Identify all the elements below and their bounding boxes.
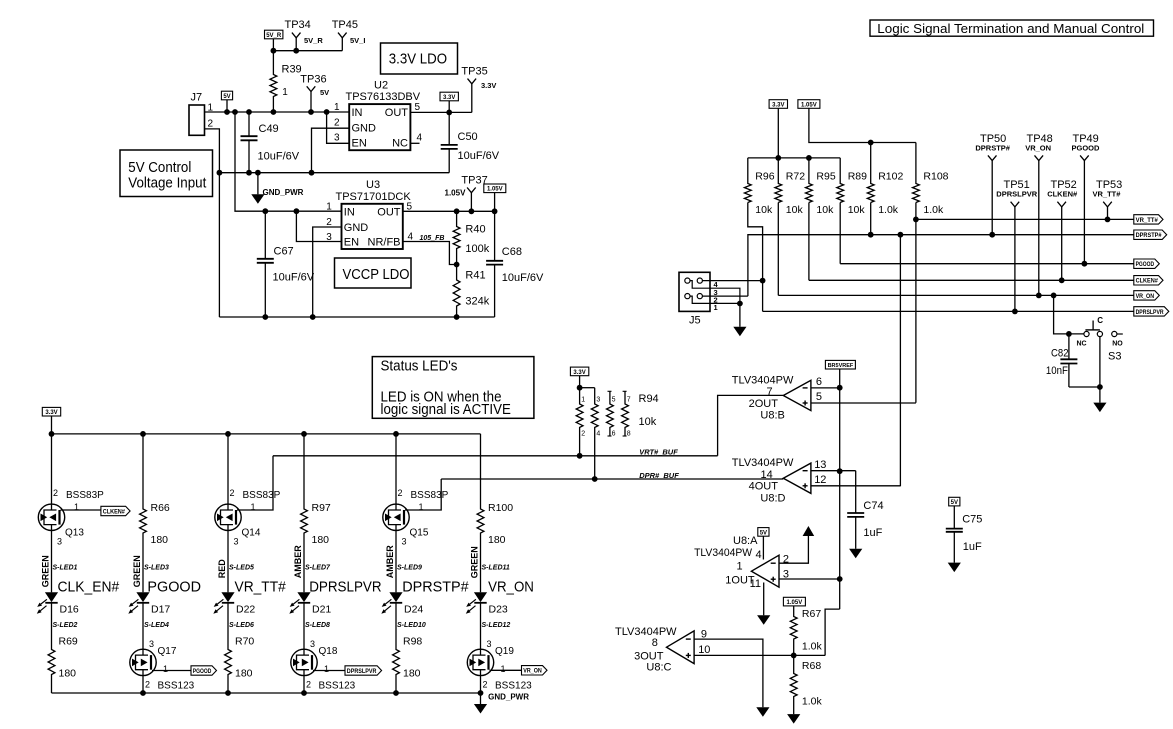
svg-text:S-LED3: S-LED3 <box>144 565 169 572</box>
title box: Logic Signal Termination and Manual Control <box>870 20 1154 36</box>
wire R72 bottom to VR_ON line <box>777 203 779 296</box>
wire J5 pin4 <box>702 280 762 282</box>
svg-text:10uF/6V: 10uF/6V <box>258 151 300 163</box>
resistor R68 <box>790 656 797 715</box>
svg-text:VRT#_BUF: VRT#_BUF <box>639 447 678 456</box>
svg-text:TP35: TP35 <box>461 66 487 78</box>
svg-text:EN: EN <box>352 137 367 149</box>
svg-text:R95: R95 <box>816 171 835 183</box>
svg-text:DPRSTP#: DPRSTP# <box>1136 233 1163 239</box>
svg-text:3: 3 <box>402 537 407 547</box>
svg-text:1.0k: 1.0k <box>802 696 823 708</box>
svg-text:DPRSLPVR: DPRSLPVR <box>347 669 377 675</box>
svg-text:R70: R70 <box>235 636 254 648</box>
svg-text:EN: EN <box>344 237 359 249</box>
svg-text:1.05V: 1.05V <box>787 600 803 606</box>
svg-text:10nF: 10nF <box>1046 365 1068 377</box>
gnd arrow C74 <box>849 549 862 559</box>
svg-text:U2: U2 <box>374 79 388 91</box>
wire R95 bottom to CLKEN# line <box>808 203 810 281</box>
svg-text:1: 1 <box>208 103 214 114</box>
svg-text:R100: R100 <box>488 502 513 514</box>
capacitor C50 <box>448 112 450 144</box>
gnd arrow C75 <box>948 563 961 573</box>
svg-text:VR_TT#: VR_TT# <box>235 579 287 596</box>
svg-text:180: 180 <box>235 668 253 680</box>
connector J7 <box>189 105 205 135</box>
svg-text:R89: R89 <box>848 171 867 183</box>
svg-text:1uF: 1uF <box>963 541 982 553</box>
svg-text:R98: R98 <box>403 636 422 648</box>
svg-text:1uF: 1uF <box>863 527 882 539</box>
svg-text:100k: 100k <box>465 243 489 255</box>
svg-text:R97: R97 <box>312 502 331 514</box>
svg-text:TLV3404PW: TLV3404PW <box>732 457 794 469</box>
svg-text:3.3V: 3.3V <box>772 102 784 108</box>
svg-text:1: 1 <box>581 397 585 404</box>
wire 5V to U3 IN <box>235 112 342 211</box>
svg-text:VR_TT#: VR_TT# <box>1136 218 1159 224</box>
svg-text:PGOOD: PGOOD <box>193 669 212 675</box>
power label 5V_R <box>265 30 283 39</box>
svg-text:1.0k: 1.0k <box>923 204 944 216</box>
net label BR5VREF <box>825 360 855 369</box>
svg-text:10k: 10k <box>816 204 834 216</box>
svg-text:3.3V: 3.3V <box>45 410 57 416</box>
svg-text:2: 2 <box>145 680 150 690</box>
svg-text:180: 180 <box>59 668 77 680</box>
op-amp U8:C TLV3404PW <box>667 631 695 664</box>
power label 3.3V (R94) <box>570 367 588 376</box>
svg-text:3.3V LDO: 3.3V LDO <box>389 51 447 67</box>
power label 3.3V <box>440 92 458 101</box>
svg-text:10k: 10k <box>755 204 773 216</box>
svg-text:U8:A: U8:A <box>733 535 758 547</box>
resistor R108 <box>913 143 920 203</box>
svg-text:Voltage Input: Voltage Input <box>128 175 206 191</box>
capacitor C49 <box>248 112 250 136</box>
J5 pin hooks <box>690 281 710 289</box>
net line CLKEN# <box>809 279 1134 281</box>
svg-text:1: 1 <box>324 664 329 674</box>
svg-text:1: 1 <box>501 664 506 674</box>
svg-text:S3: S3 <box>1108 350 1121 362</box>
svg-text:TLV3404PW: TLV3404PW <box>732 374 794 386</box>
wire U8:B output to VRT#_BUF <box>718 395 784 455</box>
svg-text:5V: 5V <box>223 94 230 100</box>
label box VCCP LDO <box>335 258 412 288</box>
svg-text:R39: R39 <box>282 64 302 76</box>
wire VR_ON to switch branch <box>1054 295 1084 334</box>
resistor R96 <box>744 158 751 203</box>
svg-text:5V_R: 5V_R <box>304 36 323 45</box>
svg-text:IN: IN <box>352 107 363 119</box>
svg-text:S-LED9: S-LED9 <box>397 565 422 572</box>
svg-text:VR_ON: VR_ON <box>488 579 534 596</box>
resistor network R94 b (pins 3-4) <box>591 388 598 479</box>
label box 5V Control Voltage Input <box>120 150 213 197</box>
svg-text:Q15: Q15 <box>410 528 429 539</box>
net tag DPRSLPVR (Q18 gate) <box>313 670 345 672</box>
resistor network R94 a (pins 1-2) <box>576 388 583 456</box>
label box 3.3V LDO <box>381 43 458 74</box>
svg-text:S-LED10: S-LED10 <box>397 622 426 629</box>
LED D22 <box>221 592 234 602</box>
svg-text:1.0k: 1.0k <box>802 641 823 653</box>
svg-text:2: 2 <box>334 118 340 129</box>
svg-text:DPRSTP#: DPRSTP# <box>402 579 469 596</box>
wire U8:C +in to divider <box>694 654 825 656</box>
svg-text:J7: J7 <box>191 92 203 104</box>
svg-text:2: 2 <box>230 488 235 498</box>
svg-text:PGOOD: PGOOD <box>147 579 201 596</box>
svg-text:5: 5 <box>415 102 421 113</box>
svg-text:Status LED's: Status LED's <box>381 359 458 375</box>
wire BR5VREF jog to U8:C +in <box>825 609 840 655</box>
resistor R40 <box>453 211 460 264</box>
wire 3.3V rail <box>748 157 840 159</box>
svg-text:3.3V: 3.3V <box>573 370 585 376</box>
svg-text:Q18: Q18 <box>319 646 338 657</box>
svg-text:U3: U3 <box>366 179 380 191</box>
svg-text:R72: R72 <box>786 171 805 183</box>
svg-text:10: 10 <box>698 644 710 656</box>
svg-text:CLKEN#: CLKEN# <box>1136 279 1159 285</box>
svg-text:TP45: TP45 <box>332 19 358 31</box>
power label 1.05V <box>484 184 506 193</box>
svg-text:8: 8 <box>627 431 631 438</box>
svg-text:IN: IN <box>344 207 355 219</box>
svg-text:C50: C50 <box>458 131 478 143</box>
svg-text:10k: 10k <box>786 204 804 216</box>
wire C82 bottom to switch pole gnd <box>1069 386 1100 388</box>
svg-text:logic signal is ACTIVE: logic signal is ACTIVE <box>381 402 511 418</box>
resistor R98 <box>393 603 400 693</box>
svg-text:VCCP LDO: VCCP LDO <box>343 267 410 283</box>
svg-text:CLKEN#: CLKEN# <box>103 509 126 515</box>
svg-text:S-LED12: S-LED12 <box>482 622 511 629</box>
LED top rail 3.3V <box>52 433 481 435</box>
svg-text:C75: C75 <box>962 514 982 526</box>
svg-text:R108: R108 <box>923 171 948 183</box>
svg-text:NC: NC <box>1077 340 1087 347</box>
svg-text:3: 3 <box>310 639 315 649</box>
svg-text:S-LED2: S-LED2 <box>53 622 78 629</box>
svg-text:R67: R67 <box>802 608 821 620</box>
wire U8:A pin4 V+ <box>762 536 764 559</box>
svg-text:2: 2 <box>53 488 58 498</box>
svg-text:5: 5 <box>612 397 616 404</box>
transistor Q13 BSS83P <box>51 434 53 504</box>
svg-text:RED: RED <box>217 559 227 579</box>
power label 1.05V (bank) <box>798 100 820 109</box>
svg-text:S-LED1: S-LED1 <box>53 565 78 572</box>
wire U2 EN <box>327 112 350 143</box>
svg-text:6: 6 <box>612 431 616 438</box>
LED D23 <box>474 592 487 602</box>
svg-text:D17: D17 <box>151 604 170 616</box>
svg-text:PGOOD: PGOOD <box>1136 262 1155 268</box>
svg-text:R66: R66 <box>151 502 170 514</box>
svg-text:2: 2 <box>483 680 488 690</box>
svg-text:S-LED7: S-LED7 <box>305 565 331 572</box>
svg-text:3: 3 <box>487 639 492 649</box>
svg-text:5V: 5V <box>760 530 767 536</box>
svg-text:3: 3 <box>334 133 340 144</box>
gnd rail (GND_PWR) under U2 <box>219 172 449 174</box>
transistor Q15 BSS83P <box>395 434 397 504</box>
resistor R41 <box>453 265 460 318</box>
svg-text:DPRSLPVR: DPRSLPVR <box>309 579 382 596</box>
svg-text:5: 5 <box>816 391 822 403</box>
svg-text:1.05V: 1.05V <box>445 189 467 198</box>
wire J5 pin2 to DPRSTP elbow <box>702 295 748 297</box>
resistor R69 <box>48 603 55 693</box>
net line DPRSLPVR <box>763 310 1134 312</box>
svg-text:R41: R41 <box>465 269 485 281</box>
svg-text:TLV3404PW: TLV3404PW <box>694 547 753 559</box>
svg-text:DPRSLPVR: DPRSLPVR <box>996 190 1037 199</box>
wire U8:B -in to BR5VREF <box>811 387 840 389</box>
wire U8:A +in to BR5VREF <box>779 578 840 580</box>
svg-text:Q13: Q13 <box>65 528 84 539</box>
svg-text:R96: R96 <box>755 171 774 183</box>
IC U2 TPS76133DBV <box>349 104 410 150</box>
wire DPRSTP vertical to U8:D + <box>899 235 901 487</box>
svg-text:GREEN: GREEN <box>132 555 142 587</box>
svg-text:1: 1 <box>326 202 332 213</box>
svg-text:5V_R: 5V_R <box>266 33 282 39</box>
svg-text:180: 180 <box>488 534 506 546</box>
svg-text:12: 12 <box>814 474 826 486</box>
svg-text:S-LED8: S-LED8 <box>305 622 330 629</box>
wire U8:A pin11 V- <box>763 583 765 616</box>
svg-text:4: 4 <box>596 431 600 438</box>
svg-text:R68: R68 <box>802 660 821 672</box>
resistor R89 <box>837 158 844 203</box>
resistor R70 <box>225 603 232 693</box>
svg-text:BSS83P: BSS83P <box>411 490 449 501</box>
svg-text:R40: R40 <box>465 224 485 236</box>
wire U8:D -in to BR5VREF and C74 <box>811 470 856 472</box>
net line PGOOD <box>840 263 1134 265</box>
wire U3 OUT <box>403 210 495 212</box>
svg-text:10uF/6V: 10uF/6V <box>502 272 544 284</box>
svg-text:NR/FB: NR/FB <box>368 237 401 249</box>
net line DPR#_BUF <box>441 478 783 480</box>
wire U2 NC stub <box>410 142 419 144</box>
resistor R39 <box>270 51 277 112</box>
svg-text:Q19: Q19 <box>495 646 514 657</box>
svg-text:BR5VREF: BR5VREF <box>828 363 854 369</box>
net tag VR_ON (Q19 gate) <box>490 669 522 671</box>
transistor Q14 BSS83P <box>227 434 229 504</box>
gnd arrow GND_PWR (LED rail) <box>480 693 482 704</box>
net line DPRSTP# <box>748 235 1134 296</box>
wire U8:C -in to gnd <box>694 639 763 707</box>
wire TP34/TP45 to R39 <box>273 50 342 52</box>
svg-text:10k: 10k <box>848 204 866 216</box>
svg-text:1.05V: 1.05V <box>801 102 817 108</box>
svg-text:BSS83P: BSS83P <box>243 490 281 501</box>
wire R108 bottom / VR_TT# vertical to U8:B + <box>915 203 917 403</box>
wire 1.05V rail <box>809 108 916 142</box>
svg-text:C: C <box>1097 316 1103 325</box>
svg-text:DPR#_BUF: DPR#_BUF <box>639 471 679 480</box>
gnd arrow R68 <box>787 714 800 724</box>
svg-text:BSS123: BSS123 <box>158 681 195 692</box>
gnd arrow U8:C pin9 <box>756 707 769 717</box>
wire U2 GND to gnd rail <box>312 128 350 173</box>
svg-text:OUT: OUT <box>377 207 401 219</box>
svg-text:VR_ON: VR_ON <box>523 669 542 675</box>
svg-text:C74: C74 <box>863 500 883 512</box>
wire U2 OUT <box>410 111 471 113</box>
connector J5 <box>679 272 710 311</box>
svg-text:GND_PWR: GND_PWR <box>488 693 529 702</box>
svg-text:5V_I: 5V_I <box>350 36 365 45</box>
svg-text:R94: R94 <box>639 393 659 405</box>
LED D21 <box>297 592 310 602</box>
resistor R102 <box>867 143 874 203</box>
svg-text:AMBER: AMBER <box>385 545 395 578</box>
svg-text:180: 180 <box>312 534 330 546</box>
svg-text:3: 3 <box>57 537 62 547</box>
LED bottom rail GND_PWR <box>52 692 481 694</box>
svg-text:TPS71701DCK: TPS71701DCK <box>336 191 412 203</box>
svg-text:D16: D16 <box>60 604 79 616</box>
gnd arrow GND_PWR <box>257 173 259 195</box>
svg-text:D24: D24 <box>404 604 423 616</box>
resistor R97 <box>301 434 308 592</box>
svg-text:NO: NO <box>1112 340 1123 347</box>
svg-text:324k: 324k <box>465 296 489 308</box>
svg-text:13: 13 <box>814 459 826 471</box>
svg-text:GND: GND <box>344 222 369 234</box>
svg-text:BSS83P: BSS83P <box>66 490 104 501</box>
svg-text:VR_TT#: VR_TT# <box>1093 190 1122 199</box>
svg-text:10uF/6V: 10uF/6V <box>458 150 500 162</box>
wire switch pole to gnd <box>1099 337 1101 403</box>
wire Q15 gate to DPR#_BUF <box>405 479 441 510</box>
svg-text:GND_PWR: GND_PWR <box>263 188 304 197</box>
svg-text:4: 4 <box>756 549 762 561</box>
svg-text:C68: C68 <box>502 246 522 258</box>
svg-text:2: 2 <box>398 488 403 498</box>
svg-text:D22: D22 <box>236 604 255 616</box>
svg-text:AMBER: AMBER <box>293 545 303 578</box>
svg-text:S-LED4: S-LED4 <box>144 622 169 629</box>
svg-text:DPRSLPVR: DPRSLPVR <box>1136 310 1165 316</box>
svg-text:180: 180 <box>403 668 421 680</box>
svg-text:Logic Signal Termination and M: Logic Signal Termination and Manual Cont… <box>877 22 1144 36</box>
svg-text:U8:B: U8:B <box>760 410 784 422</box>
wire R102 bottom to DPRSTP# line <box>870 203 872 235</box>
transistor Q19 BSS123 <box>480 603 482 649</box>
svg-text:CLKEN#: CLKEN# <box>1047 190 1078 199</box>
svg-text:3.3V: 3.3V <box>481 81 496 90</box>
net tag CLKEN# (Q13 gate) <box>61 509 101 511</box>
svg-text:Q17: Q17 <box>158 646 177 657</box>
svg-text:10k: 10k <box>639 416 657 428</box>
gnd arrow J5 <box>733 327 746 337</box>
svg-text:1: 1 <box>737 560 743 572</box>
svg-text:VR_ON: VR_ON <box>1025 143 1051 152</box>
svg-text:VR_ON: VR_ON <box>1136 294 1155 300</box>
svg-text:3: 3 <box>234 537 239 547</box>
net tag PGOOD (Q17 gate) <box>152 670 191 672</box>
svg-text:5V: 5V <box>951 500 958 506</box>
label box Status LEDs <box>372 357 534 419</box>
net line VR_TT# <box>916 218 1134 220</box>
svg-text:1: 1 <box>714 303 718 312</box>
resistor network R94 d (pins 7-8) NC <box>623 390 627 392</box>
svg-text:6: 6 <box>816 376 822 388</box>
svg-text:OUT: OUT <box>385 107 409 119</box>
wire U8:B +in to VR_TT vertical <box>811 402 916 404</box>
svg-text:10uF/6V: 10uF/6V <box>273 272 315 284</box>
svg-text:11: 11 <box>750 578 761 590</box>
wire J5 pins 3,1 to gnd <box>710 288 740 303</box>
svg-text:4OUT: 4OUT <box>749 481 779 493</box>
resistor R95 <box>806 158 813 203</box>
svg-text:C49: C49 <box>259 123 279 135</box>
capacitor C67 <box>264 211 266 259</box>
LED D16 <box>45 592 58 602</box>
svg-text:CLK_EN#: CLK_EN# <box>58 579 120 596</box>
svg-text:180: 180 <box>151 534 169 546</box>
wire U8:A -in to up arrow <box>779 536 808 563</box>
wire R89 bottom to PGOOD line <box>839 203 841 264</box>
IC U3 TPS71701DCK <box>342 204 403 249</box>
wire R94 pins 1,3 to 3.3V <box>580 387 595 389</box>
svg-text:GREEN: GREEN <box>470 546 480 578</box>
svg-text:1.05V: 1.05V <box>487 187 503 193</box>
svg-text:3: 3 <box>596 397 600 404</box>
svg-text:C82: C82 <box>1051 348 1069 360</box>
power label 1.05V (R67) <box>783 597 805 606</box>
svg-text:4: 4 <box>417 133 423 144</box>
LED D17 <box>136 592 149 602</box>
svg-text:1.0k: 1.0k <box>878 204 899 216</box>
resistor R100 <box>477 434 484 592</box>
wire U3 GND to bottom rail <box>313 227 342 317</box>
net line VRT#_BUF <box>273 455 718 457</box>
svg-text:3: 3 <box>149 639 154 649</box>
svg-text:BSS123: BSS123 <box>319 681 356 692</box>
svg-text:2OUT: 2OUT <box>749 398 779 410</box>
svg-text:2: 2 <box>581 431 585 438</box>
svg-text:GREEN: GREEN <box>41 555 51 587</box>
svg-text:NC: NC <box>392 137 408 149</box>
svg-text:1: 1 <box>163 664 168 674</box>
svg-text:R69: R69 <box>59 636 78 648</box>
svg-text:TP34: TP34 <box>285 19 311 31</box>
LED D24 <box>389 592 402 602</box>
capacitor C74 <box>855 471 857 513</box>
svg-text:U8:D: U8:D <box>760 492 785 504</box>
svg-text:C67: C67 <box>274 246 294 258</box>
gnd arrow U8:A <box>757 615 770 625</box>
wire Q14 gate to VRT#_BUF <box>237 456 273 510</box>
svg-text:BSS123: BSS123 <box>495 681 532 692</box>
wire R96 bottom to J5.4/DPRSLPVR <box>748 203 763 312</box>
svg-text:J5: J5 <box>689 315 701 327</box>
svg-text:DPRSTP#: DPRSTP# <box>975 143 1010 152</box>
svg-text:7: 7 <box>627 397 631 404</box>
svg-text:8: 8 <box>652 637 658 649</box>
svg-text:TLV3404PW: TLV3404PW <box>615 626 677 638</box>
